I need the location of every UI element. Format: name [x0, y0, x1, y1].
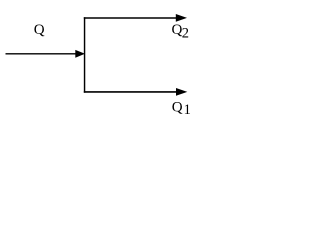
wire: input line [6, 53, 77, 55]
svg-text:Q: Q [34, 22, 45, 38]
svg-text:2: 2 [182, 25, 189, 41]
node: top arrowhead [176, 14, 187, 22]
svg-text:1: 1 [184, 102, 191, 118]
node: bottom arrowhead [176, 88, 187, 96]
svg-text:Q: Q [172, 99, 183, 115]
wire: vertical splitter [84, 17, 86, 93]
wire: bottom branch [84, 91, 178, 93]
wire: top branch [84, 17, 177, 19]
node: input arrowhead [75, 50, 85, 58]
